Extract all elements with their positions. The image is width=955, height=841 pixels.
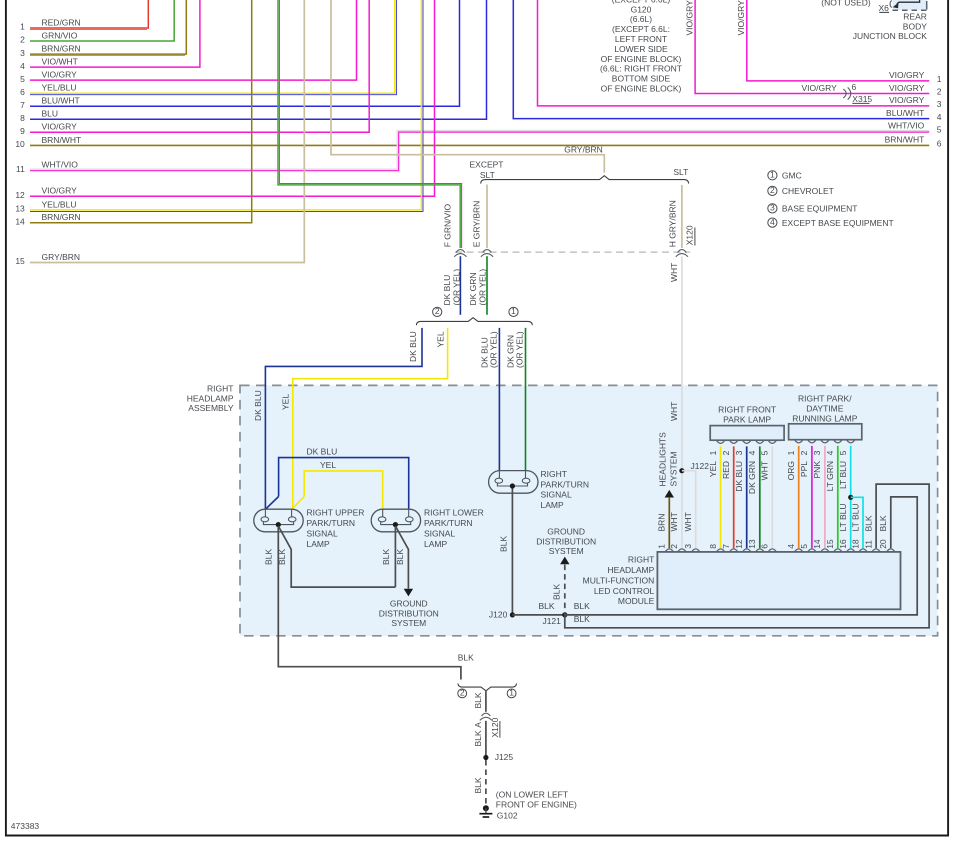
svg-text:WHT: WHT	[669, 512, 679, 531]
svg-text:J125: J125	[495, 752, 514, 762]
wire 10 BRN/WHT	[30, 144, 929, 146]
svg-text:3: 3	[770, 203, 775, 213]
svg-text:VIO/GRY: VIO/GRY	[889, 83, 925, 93]
splice brace SLT / EXCEPT SLT	[481, 176, 689, 184]
svg-text:1: 1	[786, 450, 796, 455]
svg-text:2: 2	[669, 544, 679, 549]
LT BLU branch to pin 18	[848, 495, 853, 500]
junction J125	[483, 755, 488, 760]
svg-text:BRN/GRN: BRN/GRN	[42, 212, 81, 222]
right headlamp multi-function LED control module	[657, 552, 900, 609]
svg-text:7: 7	[721, 544, 731, 549]
drl pin 4 LT GRN	[834, 440, 842, 443]
svg-text:PPL: PPL	[799, 461, 809, 477]
wire 9 VIO/GRY	[30, 0, 369, 132]
svg-text:YEL/BLU: YEL/BLU	[42, 199, 77, 209]
module pin 1	[665, 549, 673, 552]
WHT branch to pin 3	[682, 471, 696, 549]
right park/daytime running lamp box	[789, 424, 862, 440]
svg-text:3: 3	[683, 544, 693, 549]
svg-text:BASE EQUIPMENT: BASE EQUIPMENT	[782, 204, 858, 214]
legend 3 BASE EQUIPMENT	[768, 204, 777, 213]
svg-text:14: 14	[812, 539, 822, 549]
svg-text:(OR YEL): (OR YEL)	[478, 269, 488, 306]
svg-text:BLK: BLK	[552, 584, 562, 600]
wire 14 BRN/GRN	[30, 0, 252, 223]
BLK from upper lamp to splice below	[278, 527, 461, 679]
BLK loop to module pin 11	[565, 484, 929, 628]
BLK link upper to lower lamp	[278, 526, 395, 587]
svg-text:BLK: BLK	[473, 692, 483, 708]
svg-text:VIO/GRY: VIO/GRY	[42, 70, 78, 80]
svg-text:A: A	[473, 722, 483, 728]
svg-text:WHT: WHT	[683, 512, 693, 531]
svg-text:E GRY/BRN: E GRY/BRN	[472, 201, 482, 248]
svg-text:SIGNAL: SIGNAL	[541, 490, 572, 500]
svg-text:(OR YEL): (OR YEL)	[488, 331, 498, 368]
headlights system arrow + BRN wire pin1	[668, 498, 670, 549]
svg-text:1: 1	[657, 544, 667, 549]
BLK loop to module pin 20	[565, 497, 917, 615]
svg-text:WHT/VIO: WHT/VIO	[888, 121, 925, 131]
svg-text:MODULE: MODULE	[618, 596, 655, 606]
svg-text:LOWER SIDE: LOWER SIDE	[614, 44, 668, 54]
svg-text:11: 11	[16, 164, 25, 174]
svg-text:X315: X315	[852, 94, 872, 104]
wire H GRY/BRN	[681, 185, 683, 248]
svg-text:SYSTEM: SYSTEM	[549, 546, 584, 556]
svg-text:2: 2	[435, 306, 440, 316]
module pin 15	[834, 549, 842, 552]
svg-text:LAMP: LAMP	[541, 500, 564, 510]
module pin 5	[808, 549, 816, 552]
svg-text:2: 2	[770, 185, 775, 195]
svg-text:DK BLU: DK BLU	[442, 275, 452, 306]
junction J122 on WHT wire	[679, 468, 684, 473]
svg-text:BLK: BLK	[539, 601, 555, 611]
svg-text:J122: J122	[691, 461, 710, 471]
park lamp pin 3 DK BLU	[743, 440, 751, 443]
wire DK BLU (OR YEL) below F	[459, 256, 461, 315]
svg-text:REAR: REAR	[903, 12, 927, 22]
svg-text:BLK: BLK	[574, 614, 590, 624]
svg-text:BLK: BLK	[395, 549, 405, 565]
svg-text:LT GRN: LT GRN	[825, 461, 835, 491]
svg-text:SYSTEM: SYSTEM	[668, 452, 678, 487]
connector H / X120	[678, 250, 687, 253]
svg-text:14: 14	[15, 216, 25, 226]
svg-text:VIO/GRY: VIO/GRY	[42, 186, 78, 196]
svg-text:3: 3	[812, 450, 822, 455]
BLK A wire to J125	[485, 721, 487, 758]
svg-text:(ON LOWER LEFT: (ON LOWER LEFT	[496, 789, 568, 799]
svg-text:DAYTIME: DAYTIME	[806, 404, 843, 414]
right wire 3 VIO/GRY	[538, 0, 930, 106]
wire 15 GRY/BRN	[30, 0, 304, 263]
svg-text:BLK: BLK	[263, 549, 273, 565]
svg-text:SLT: SLT	[480, 170, 495, 180]
svg-text:BLK: BLK	[473, 730, 483, 746]
wire E GRY/BRN	[486, 185, 488, 249]
drl pin 1 ORG	[795, 440, 803, 443]
svg-text:PARK/TURN: PARK/TURN	[424, 518, 473, 528]
svg-text:RIGHT FRONT: RIGHT FRONT	[718, 404, 776, 414]
svg-text:YEL: YEL	[320, 460, 336, 470]
svg-text:VIO/GRY: VIO/GRY	[889, 95, 925, 105]
svg-text:(6.6L: RIGHT FRONT: (6.6L: RIGHT FRONT	[600, 64, 682, 74]
svg-text:GRY/BRN: GRY/BRN	[564, 145, 603, 155]
module pin 14	[821, 549, 829, 552]
svg-text:CHEVROLET: CHEVROLET	[782, 186, 834, 196]
wire WHT below H down to module pin 2	[681, 256, 683, 548]
svg-text:BLU: BLU	[42, 109, 59, 119]
wire GRN/VIO to connector F	[279, 0, 461, 248]
variant 2	[433, 307, 442, 316]
wire 4 VIO/WHT	[30, 0, 200, 67]
wire 11 WHT/VIO	[30, 131, 929, 170]
svg-text:BLK: BLK	[863, 515, 873, 531]
svg-text:BLK: BLK	[381, 549, 391, 565]
svg-text:X120: X120	[685, 225, 695, 245]
svg-text:BLK: BLK	[574, 601, 590, 611]
svg-text:5: 5	[799, 544, 809, 549]
svg-text:BLU/WHT: BLU/WHT	[42, 96, 80, 106]
svg-text:1: 1	[511, 306, 516, 316]
connector X315	[843, 89, 846, 98]
svg-text:PNK: PNK	[812, 461, 822, 479]
svg-text:DK BLU: DK BLU	[734, 461, 744, 492]
legend 1 GMC	[768, 171, 777, 180]
svg-text:YEL/BLU: YEL/BLU	[42, 83, 77, 93]
svg-text:6: 6	[20, 87, 25, 97]
svg-text:MULTI-FUNCTION: MULTI-FUNCTION	[583, 575, 655, 585]
svg-text:4: 4	[937, 112, 942, 122]
svg-text:BLU/WHT: BLU/WHT	[886, 108, 924, 118]
module pin 2	[678, 549, 686, 552]
svg-text:BRN: BRN	[657, 514, 667, 532]
svg-text:BODY: BODY	[903, 21, 927, 31]
svg-text:BLK: BLK	[458, 653, 474, 663]
svg-text:4: 4	[825, 450, 835, 455]
BLK dashed to ground G102	[485, 760, 487, 807]
svg-text:G120: G120	[631, 4, 652, 14]
lamp: right park/turn signal lamp	[489, 471, 538, 494]
svg-text:RED: RED	[721, 461, 731, 479]
svg-text:VIO/GRY: VIO/GRY	[736, 0, 746, 36]
svg-text:GRY/BRN: GRY/BRN	[42, 252, 81, 262]
svg-text:3: 3	[20, 48, 25, 58]
svg-text:1: 1	[509, 688, 514, 698]
svg-text:EXCEPT BASE EQUIPMENT: EXCEPT BASE EQUIPMENT	[782, 218, 894, 228]
svg-text:SIGNAL: SIGNAL	[307, 528, 338, 538]
svg-text:5: 5	[937, 125, 942, 135]
module pin 11	[872, 549, 880, 552]
svg-text:SIGNAL: SIGNAL	[424, 528, 455, 538]
svg-text:J120: J120	[489, 610, 508, 620]
svg-text:WHT: WHT	[669, 402, 679, 421]
svg-text:5: 5	[760, 450, 770, 455]
ground G102	[483, 805, 489, 811]
svg-text:RIGHT: RIGHT	[541, 469, 567, 479]
module pin 6	[768, 549, 776, 552]
svg-text:2: 2	[460, 688, 465, 698]
right wire 1 VIO/GRY	[747, 0, 930, 81]
svg-text:RIGHT LOWER: RIGHT LOWER	[424, 507, 484, 517]
svg-text:1: 1	[20, 22, 25, 32]
variant 2	[458, 689, 467, 698]
wire DK BLU variant2	[265, 328, 422, 509]
svg-text:DK BLU: DK BLU	[253, 390, 263, 421]
wire 5 VIO/GRY	[30, 0, 357, 80]
park lamp pin 5 WHT	[768, 440, 776, 443]
svg-text:VIO/GRY: VIO/GRY	[684, 0, 694, 36]
svg-text:12: 12	[734, 539, 744, 549]
svg-text:LAMP: LAMP	[424, 539, 447, 549]
lamp: right upper park/turn signal lamp	[254, 509, 303, 532]
wire 7 BLU/WHT	[30, 0, 460, 106]
svg-text:9: 9	[20, 126, 25, 136]
svg-text:4: 4	[770, 217, 775, 227]
rear body junction block	[893, 0, 927, 10]
wire DK BLU link to lower lamp	[279, 458, 409, 510]
svg-text:10: 10	[15, 139, 25, 149]
svg-text:WHT: WHT	[669, 263, 679, 282]
connector F	[456, 250, 465, 253]
svg-text:VIO/GRY: VIO/GRY	[802, 83, 838, 93]
svg-text:4: 4	[20, 61, 25, 71]
module pin 8	[716, 549, 724, 552]
svg-text:4: 4	[786, 544, 796, 549]
svg-text:DK GRN: DK GRN	[747, 461, 757, 494]
legend 4 EXCEPT BASE EQUIPMENT	[768, 218, 777, 227]
lamp: right lower park/turn signal lamp	[371, 509, 420, 532]
BLK from lower lamp to ground distribution arrow	[395, 526, 408, 589]
svg-text:BRN/WHT: BRN/WHT	[885, 135, 925, 145]
svg-text:2: 2	[937, 87, 942, 97]
svg-text:VIO/WHT: VIO/WHT	[42, 57, 78, 67]
BLK from lower lamp down	[394, 527, 396, 587]
svg-text:BLK: BLK	[498, 536, 508, 552]
svg-text:BRN/GRN: BRN/GRN	[42, 44, 81, 54]
right wire 4 BLU/WHT	[513, 0, 929, 119]
svg-text:X120: X120	[490, 717, 500, 737]
right headlamp assembly box	[240, 385, 938, 635]
svg-text:LEFT FRONT: LEFT FRONT	[615, 34, 667, 44]
svg-text:LAMP: LAMP	[307, 539, 330, 549]
svg-text:18: 18	[850, 539, 860, 549]
svg-text:PARK/TURN: PARK/TURN	[307, 518, 356, 528]
wire 13 YEL/BLU	[30, 0, 421, 210]
svg-text:LT BLU: LT BLU	[838, 503, 848, 531]
svg-text:2: 2	[799, 450, 809, 455]
svg-text:BLK: BLK	[277, 549, 287, 565]
svg-text:OF ENGINE BLOCK): OF ENGINE BLOCK)	[601, 54, 682, 64]
svg-text:15: 15	[15, 256, 25, 266]
svg-text:GROUND: GROUND	[390, 598, 428, 608]
svg-text:GMC: GMC	[782, 171, 802, 181]
svg-text:LED CONTROL: LED CONTROL	[594, 586, 655, 596]
wire 1 RED/GRN	[30, 0, 148, 28]
connector X120 (ground)	[482, 713, 491, 716]
wire DK BLU (OR YEL) variant1	[498, 328, 500, 471]
connector boundary dashed line	[455, 251, 690, 253]
park lamp pin 1 YEL	[716, 440, 724, 443]
svg-text:OF ENGINE BLOCK): OF ENGINE BLOCK)	[601, 84, 682, 94]
svg-text:RIGHT PARK/: RIGHT PARK/	[798, 394, 852, 404]
wire 3 BRN/GRN	[30, 0, 186, 54]
svg-text:6: 6	[937, 139, 942, 149]
svg-text:1: 1	[708, 450, 718, 455]
variant 1	[509, 307, 518, 316]
park lamp pin 4 DK GRN	[756, 440, 764, 443]
module pin 13	[756, 549, 764, 552]
svg-text:HEADLAMP: HEADLAMP	[187, 393, 234, 403]
svg-text:EXCEPT: EXCEPT	[469, 159, 503, 169]
GRY/BRN wire from top	[331, 0, 604, 173]
svg-text:RIGHT UPPER: RIGHT UPPER	[307, 507, 365, 517]
svg-text:13: 13	[15, 204, 25, 214]
svg-text:(OR YEL): (OR YEL)	[515, 331, 525, 368]
svg-text:(OR YEL): (OR YEL)	[451, 269, 461, 306]
BLK wire to connector X120	[485, 691, 487, 712]
svg-text:16: 16	[838, 539, 848, 549]
svg-text:RUNNING LAMP: RUNNING LAMP	[792, 414, 858, 424]
svg-text:PARK LAMP: PARK LAMP	[723, 414, 771, 424]
svg-text:PARK/TURN: PARK/TURN	[541, 479, 590, 489]
svg-text:473383: 473383	[11, 821, 40, 831]
splice brace variants 2 and 1	[416, 318, 532, 326]
svg-text:(6.6L): (6.6L)	[630, 14, 652, 24]
module pin 12	[743, 549, 751, 552]
module pin 20	[887, 549, 895, 552]
svg-text:F GRN/VIO: F GRN/VIO	[443, 203, 453, 247]
svg-text:VIO/GRY: VIO/GRY	[889, 70, 925, 80]
svg-text:BLK: BLK	[878, 515, 888, 531]
svg-text:GRN/VIO: GRN/VIO	[42, 30, 78, 40]
svg-text:1: 1	[937, 74, 942, 84]
wire DK GRN (OR YEL) variant1	[525, 328, 527, 471]
module pin 3	[692, 549, 700, 552]
variant 1	[507, 689, 516, 698]
merge brace variants 2/1 (ground)	[458, 683, 517, 690]
svg-text:X6: X6	[878, 3, 889, 13]
drl pin 5 LT BLU	[847, 440, 855, 443]
svg-text:HEADLIGHTS: HEADLIGHTS	[657, 432, 667, 487]
svg-text:DK BLU: DK BLU	[307, 446, 338, 456]
junction J120	[510, 612, 515, 617]
svg-text:RED/GRN: RED/GRN	[42, 17, 81, 27]
svg-text:1: 1	[770, 170, 775, 180]
wire YEL variant2	[293, 328, 448, 509]
connector E	[483, 250, 492, 253]
BLK J120 to J121	[512, 614, 564, 616]
svg-text:13: 13	[747, 539, 757, 549]
svg-text:BOTTOM SIDE: BOTTOM SIDE	[612, 74, 671, 84]
svg-text:SYSTEM: SYSTEM	[391, 618, 426, 628]
svg-text:2: 2	[20, 35, 25, 45]
drl pin 3 PNK	[821, 440, 829, 443]
svg-text:YEL: YEL	[436, 331, 446, 347]
svg-text:SLT: SLT	[673, 167, 688, 177]
svg-text:BLK: BLK	[473, 777, 483, 793]
svg-text:(NOT USED): (NOT USED)	[821, 0, 871, 8]
svg-text:5: 5	[20, 74, 25, 84]
svg-text:WHT: WHT	[760, 461, 770, 480]
module pin 18	[859, 549, 867, 552]
svg-text:3: 3	[734, 450, 744, 455]
svg-text:DK BLU: DK BLU	[408, 331, 418, 362]
right wire 2 VIO/GRY with X315	[695, 0, 929, 94]
svg-text:7: 7	[20, 100, 25, 110]
svg-text:HEADLAMP: HEADLAMP	[608, 565, 655, 575]
BLK from right lamp to J120	[511, 489, 513, 615]
svg-text:2: 2	[721, 450, 731, 455]
wire YEL link to lower lamp	[304, 471, 383, 509]
wire 2 GRN/VIO	[30, 0, 174, 41]
svg-text:3: 3	[937, 99, 942, 109]
svg-text:RIGHT: RIGHT	[207, 383, 233, 393]
right front park lamp box	[710, 426, 784, 441]
page frame border	[5, 0, 7, 836]
svg-text:J121: J121	[542, 616, 561, 626]
wire DK GRN (OR YEL) below E	[486, 256, 488, 315]
svg-text:12: 12	[15, 190, 25, 200]
svg-text:15: 15	[825, 539, 835, 549]
svg-text:JUNCTION BLOCK: JUNCTION BLOCK	[853, 31, 927, 41]
svg-text:H GRY/BRN: H GRY/BRN	[668, 200, 678, 247]
svg-text:6: 6	[760, 544, 770, 549]
svg-text:4: 4	[747, 450, 757, 455]
svg-text:FRONT OF ENGINE): FRONT OF ENGINE)	[496, 800, 577, 810]
svg-text:WHT/VIO: WHT/VIO	[42, 160, 79, 170]
svg-text:(EXCEPT 6.6L:: (EXCEPT 6.6L:	[612, 24, 670, 34]
svg-text:LT BLU: LT BLU	[850, 503, 860, 531]
svg-text:ORG: ORG	[786, 461, 796, 480]
svg-text:ASSEMBLY: ASSEMBLY	[188, 403, 234, 413]
wire 6 YEL/BLU	[30, 0, 395, 93]
svg-text:G102: G102	[497, 811, 518, 821]
svg-text:GROUND: GROUND	[547, 527, 585, 537]
svg-text:YEL: YEL	[280, 394, 290, 410]
svg-text:BRN/WHT: BRN/WHT	[42, 135, 82, 145]
svg-text:6: 6	[852, 82, 857, 92]
BLK dashed to ground distribution (up arrow)	[564, 565, 566, 615]
drl pin 2 PPL	[808, 440, 816, 443]
module pin 16	[847, 549, 855, 552]
module pin 4	[795, 549, 803, 552]
svg-text:11: 11	[863, 540, 873, 549]
park lamp pin 2 RED	[730, 440, 738, 443]
wire 8 BLU	[30, 0, 487, 119]
svg-text:8: 8	[708, 544, 718, 549]
svg-text:YEL: YEL	[708, 461, 718, 477]
svg-text:5: 5	[838, 450, 848, 455]
svg-text:RIGHT: RIGHT	[628, 555, 654, 565]
junction J121	[562, 612, 567, 617]
wire 12 VIO/GRY	[30, 0, 435, 196]
svg-text:VIO/GRY: VIO/GRY	[42, 122, 78, 132]
module pin 7	[730, 549, 738, 552]
svg-text:LT BLU: LT BLU	[838, 461, 848, 489]
legend 2 CHEVROLET	[768, 186, 777, 195]
svg-text:8: 8	[20, 113, 25, 123]
svg-text:20: 20	[878, 539, 888, 549]
